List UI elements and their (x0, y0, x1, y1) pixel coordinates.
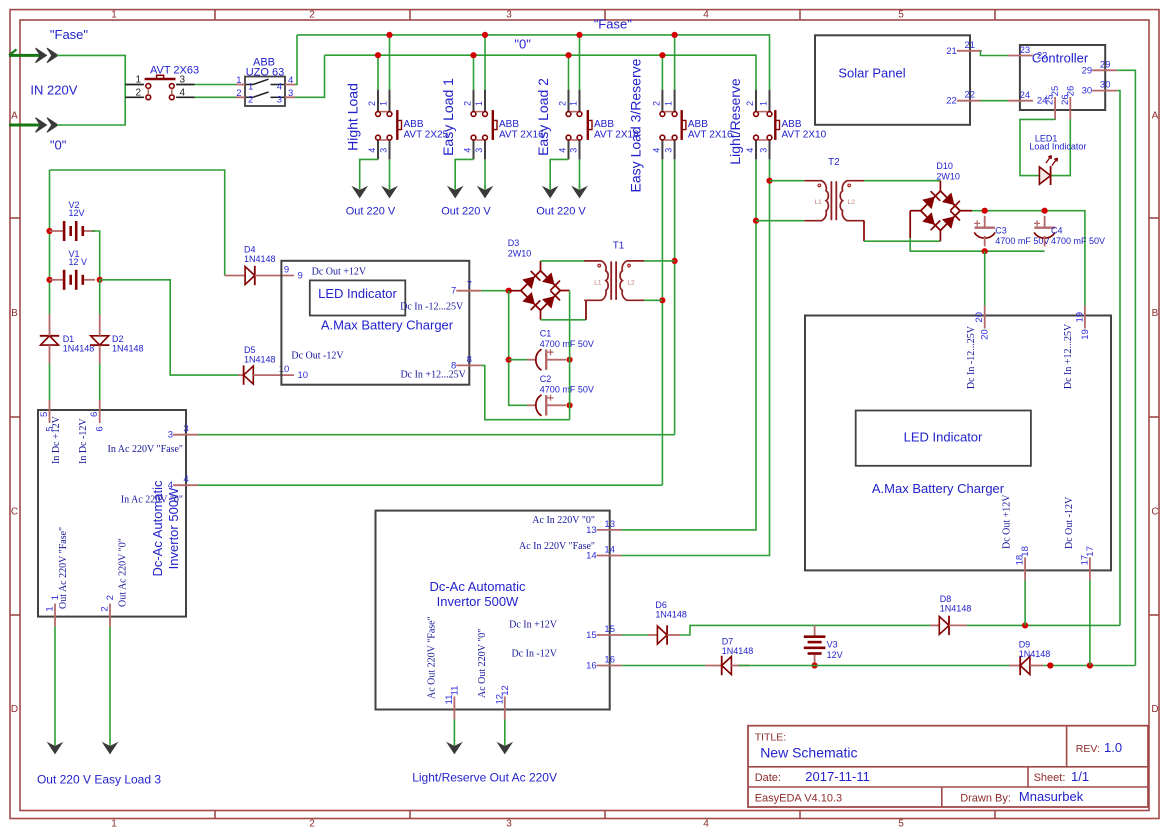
svg-text:4: 4 (463, 148, 473, 153)
svg-text:2: 2 (558, 101, 568, 106)
svg-text:4: 4 (168, 480, 173, 491)
node V1 right junction (97, 277, 103, 283)
svg-text:A: A (11, 111, 18, 122)
wire D2 leads (99, 314, 101, 363)
pin 29 (1082, 59, 1118, 76)
net port "0" input arrow (9, 118, 58, 133)
breaker CB4 contacts (660, 110, 686, 140)
wire controller pin26 to LED cathode (1051, 119, 1071, 175)
pin 16 (586, 655, 622, 672)
svg-text:ABB: ABB (782, 119, 802, 130)
svg-text:29: 29 (1100, 59, 1111, 70)
wire D6 to D8 rail (667, 625, 930, 635)
svg-text:ABB: ABB (594, 119, 614, 130)
wire charger1 pin7 to bridge D3 (481, 290, 508, 292)
inverter U2 name label (150, 480, 181, 577)
breaker CB5 pin numbers (745, 101, 769, 153)
RCD UZO pin stubs (236, 85, 295, 98)
wire solar pin22 to controller pin24 (980, 100, 1008, 102)
svg-text:1: 1 (45, 606, 56, 611)
svg-text:A.Max Battery Charger: A.Max Battery Charger (872, 481, 1005, 496)
svg-text:TITLE:: TITLE: (755, 731, 787, 743)
switch AVT 2X63 contacts (145, 75, 176, 100)
svg-text:C: C (1151, 507, 1158, 518)
svg-text:C2: C2 (540, 374, 552, 384)
svg-text:New Schematic: New Schematic (760, 745, 857, 761)
svg-text:T2: T2 (828, 157, 840, 168)
svg-text:4: 4 (288, 75, 293, 86)
pin 22 (946, 90, 982, 107)
svg-text:Ac In 220V "Fase": Ac In 220V "Fase" (519, 541, 595, 552)
svg-text:D10: D10 (936, 161, 953, 171)
node charger2 pin17 junction (1087, 662, 1093, 668)
svg-text:4700 mF 50V: 4700 mF 50V (540, 385, 594, 395)
node T1 secondary bottom junction (659, 297, 665, 303)
svg-text:Invertor 500W: Invertor 500W (437, 594, 519, 609)
svg-text:19: 19 (1080, 329, 1091, 340)
wire Fase bus (297, 35, 770, 91)
svg-text:C: C (11, 507, 18, 518)
node T1 secondary top junction (672, 258, 678, 264)
bridge rectifier D3 2W10 (508, 238, 560, 310)
wire inverter1 pin1 output (54, 627, 56, 741)
node bridge D3 input junction (506, 288, 512, 294)
svg-text:In Ac 220V "Fase": In Ac 220V "Fase" (108, 444, 183, 455)
breaker CB1 pin numbers (367, 101, 389, 153)
svg-text:ABB: ABB (404, 119, 424, 130)
breaker CB1 pin stubs (378, 90, 390, 159)
svg-text:IN 220V: IN 220V (30, 82, 77, 97)
wire breaker5 pin3 column to inverter2 pin14 (622, 159, 770, 555)
svg-text:16: 16 (586, 661, 597, 672)
svg-text:1.0: 1.0 (1104, 740, 1122, 755)
svg-text:1: 1 (111, 10, 117, 21)
node C1 right junction (567, 357, 573, 363)
pin 13 (586, 519, 622, 536)
svg-text:4700 mF 50V: 4700 mF 50V (1051, 236, 1105, 246)
svg-text:5: 5 (39, 412, 50, 417)
wire inverter1 pin3 to Fase column (198, 434, 675, 436)
pin 26 (1060, 86, 1077, 120)
breaker CB5 value label (782, 119, 827, 141)
svg-text:D9: D9 (1019, 639, 1031, 649)
wire breaker4 pin4 column to inverter1 pin4 (661, 159, 663, 485)
svg-text:12V: 12V (69, 208, 85, 218)
battery V1 12 V (49, 249, 95, 290)
svg-text:Dc Out +12V: Dc Out +12V (1002, 494, 1013, 549)
wire Fase bus to breaker 1 pin1 (389, 35, 391, 91)
solar panel box (815, 35, 970, 125)
svg-text:Dc In +12V: Dc In +12V (509, 620, 558, 631)
out arrow breaker 3 left (549, 185, 551, 190)
svg-text:2: 2 (236, 88, 241, 99)
svg-text:C3: C3 (995, 226, 1007, 236)
node V2 left junction (46, 228, 52, 234)
pin 10 numbers (279, 364, 308, 381)
svg-text:Easy Load 2: Easy Load 2 (535, 78, 551, 156)
wire inverter1 pin4 to 0 column (198, 484, 662, 486)
svg-text:Light/Reserve: Light/Reserve (727, 78, 743, 165)
diode D7 1N4148 (722, 637, 754, 676)
svg-text:9: 9 (298, 271, 303, 282)
out arrow breaker 2 left (454, 185, 456, 190)
wire C1 C2 left column (509, 291, 527, 406)
svg-text:D: D (1151, 704, 1158, 715)
svg-text:24: 24 (1020, 90, 1031, 101)
svg-text:6: 6 (89, 412, 100, 417)
svg-text:Dc In -12V: Dc In -12V (511, 648, 557, 659)
breaker CB4 pin stubs (662, 90, 674, 159)
svg-text:3: 3 (379, 148, 389, 153)
svg-text:3: 3 (180, 75, 186, 86)
battery charger U4 box (805, 316, 1111, 571)
svg-text:23: 23 (1037, 51, 1048, 62)
wire D8 to controller pin30 rail (949, 624, 1120, 626)
wire solar pin21 to controller pin23 (980, 51, 1008, 56)
svg-text:In Ac 220V "0": In Ac 220V "0" (121, 494, 183, 505)
svg-text:1N4148: 1N4148 (940, 604, 972, 614)
svg-text:D7: D7 (722, 637, 734, 647)
capacitor C1 4700 mF 50V (527, 329, 594, 371)
svg-text:L2: L2 (627, 279, 635, 286)
node C3 minus junction (982, 248, 988, 254)
svg-text:3: 3 (569, 148, 579, 153)
svg-text:Date:: Date: (755, 772, 781, 784)
pin 8 (451, 354, 481, 371)
wire controller pin25 to LED anode (1020, 119, 1055, 175)
svg-text:1/1: 1/1 (1071, 769, 1089, 784)
pin 9 numbers (284, 265, 303, 282)
wire D1 to inverter1 pin5 (49, 364, 51, 400)
svg-text:Out 220 V: Out 220 V (346, 206, 396, 218)
wire breaker4 pin3 column to inverter1 pin3 (674, 159, 676, 434)
pin 14 (586, 545, 622, 562)
svg-text:4700 mF 50V: 4700 mF 50V (540, 339, 594, 349)
svg-text:1N4148: 1N4148 (655, 610, 687, 620)
wire UZO pin4 to Fase bus (295, 35, 297, 85)
wire T2 primary bottom (756, 220, 804, 222)
svg-text:Solar Panel: Solar Panel (838, 66, 905, 81)
svg-text:ABB: ABB (499, 119, 519, 130)
pin 1 (45, 595, 62, 627)
svg-text:10: 10 (298, 370, 309, 381)
svg-text:Dc In +12...25V: Dc In +12...25V (400, 370, 466, 381)
svg-text:"0": "0" (50, 138, 67, 153)
node C1 left junction (506, 357, 512, 363)
svg-text:AVT 2X10: AVT 2X10 (782, 130, 827, 141)
svg-text:1: 1 (50, 595, 61, 600)
inverter U2 box (38, 410, 186, 617)
switch AVT 2X63 pins 1-4 (125, 75, 194, 99)
svg-text:4: 4 (558, 148, 568, 153)
svg-text:2: 2 (105, 595, 116, 600)
wire left battery column (49, 170, 51, 314)
svg-text:LED Indicator: LED Indicator (904, 430, 983, 445)
pin 15 (586, 624, 622, 641)
wire inverter2 pin15 to D6 (622, 634, 648, 636)
svg-text:D4: D4 (244, 245, 256, 255)
wire T2 secondary top to bridge D10 (864, 181, 940, 191)
svg-text:8: 8 (467, 354, 472, 365)
svg-text:Dc-Ac Automatic: Dc-Ac Automatic (429, 579, 526, 594)
svg-text:2W10: 2W10 (508, 249, 532, 259)
node C2 right junction (567, 402, 573, 408)
svg-text:5: 5 (898, 10, 904, 21)
svg-text:15: 15 (586, 630, 597, 641)
svg-text:2W10: 2W10 (936, 172, 960, 182)
out arrow breaker 3 right (579, 185, 581, 190)
svg-text:B: B (1152, 308, 1159, 319)
out arrow inverter1 pin2 (109, 740, 111, 746)
wire V2 right to V1 right (92, 231, 100, 280)
wire breaker 3 output left (550, 159, 568, 188)
svg-text:D5: D5 (244, 345, 256, 355)
node T2 primary bottom junction (753, 218, 759, 224)
pin 19 (1074, 306, 1091, 340)
svg-text:Dc Out -12V: Dc Out -12V (1064, 496, 1075, 549)
wire D7 to D9 rail (731, 665, 1009, 667)
svg-text:9: 9 (284, 265, 289, 276)
svg-text:4: 4 (703, 819, 709, 827)
diode D4 1N4148 (244, 245, 276, 286)
svg-text:"Fase": "Fase" (50, 27, 89, 42)
transformer T1 (584, 240, 644, 300)
wire breaker 1 output right (389, 159, 391, 188)
svg-text:A: A (1152, 111, 1159, 122)
svg-text:D2: D2 (112, 334, 124, 344)
wire breaker 3 output right (579, 159, 581, 188)
svg-text:In Dc -12V: In Dc -12V (78, 418, 89, 464)
diode D9 1N4148 (1019, 639, 1051, 675)
svg-text:A.Max Battery Charger: A.Max Battery Charger (321, 317, 454, 332)
wire 0 bus to breaker 3 pin2 (568, 55, 570, 90)
svg-text:4: 4 (183, 474, 188, 485)
pin 11 (444, 686, 461, 720)
wire Fase bus to breaker 2 pin1 (484, 35, 486, 91)
wire bridge D3 bottom to T1 primary (541, 300, 587, 320)
svg-text:V3: V3 (827, 639, 838, 649)
svg-text:REV:: REV: (1076, 743, 1100, 755)
wire T1 secondary top to Fase column (644, 260, 675, 262)
wire charger2 pin17 down (1089, 580, 1091, 665)
node D9 cathode junction (1047, 662, 1053, 668)
out arrow breaker 1 left (359, 185, 361, 190)
charger U1 pin names (291, 266, 466, 380)
wire controller pin30 right (1117, 91, 1120, 626)
svg-text:Out 220 V: Out 220 V (536, 206, 586, 218)
svg-text:8: 8 (451, 360, 456, 371)
svg-text:5: 5 (45, 426, 56, 431)
wire bridge D3 output column (560, 291, 569, 420)
svg-text:3: 3 (474, 148, 484, 153)
out arrow inverter1 pin1 (54, 740, 56, 746)
pin 6 (89, 400, 106, 432)
inverter U2 pin names (51, 415, 183, 609)
svg-text:19: 19 (1074, 312, 1085, 323)
breaker CB2 value label (499, 119, 544, 141)
wire bridge D3 top to T1 primary (541, 261, 587, 271)
wire C2 right to column (558, 404, 567, 406)
breaker CB5 contacts (754, 110, 780, 140)
svg-text:D: D (11, 704, 18, 715)
diode D6 1N4148 (655, 600, 687, 645)
pin 17 (1079, 546, 1096, 580)
svg-text:Easy Load 1: Easy Load 1 (440, 78, 456, 156)
capacitor C2 4700 mF 50V (527, 374, 594, 416)
svg-text:3: 3 (168, 430, 173, 441)
capacitor C4 4700 mF 50V (1034, 216, 1105, 247)
wire breaker5 pin4 column to inverter2 pin13 (622, 159, 757, 530)
wire switch pin3 to UZO pin1 (195, 85, 237, 98)
wire D5 to pin10 (253, 374, 294, 376)
wire 0 bus to breaker 4 pin2 (661, 55, 663, 90)
wire charger2 pin18 down (1024, 580, 1026, 625)
svg-text:"0": "0" (514, 36, 531, 51)
wire breaker 2 output right (484, 159, 486, 188)
svg-text:L1: L1 (815, 199, 823, 206)
node C4 plus junction (1042, 208, 1048, 214)
wire D4 cathode to pin9 (255, 275, 294, 277)
svg-text:C1: C1 (540, 329, 552, 339)
title block texts (755, 731, 1122, 804)
pin 24 (1008, 90, 1048, 107)
svg-text:1N4148: 1N4148 (112, 344, 144, 354)
svg-text:3: 3 (506, 10, 512, 21)
inverter U3 box (376, 511, 610, 710)
battery V2 12V (49, 200, 95, 241)
svg-text:22: 22 (965, 90, 976, 101)
wire inverter2 pin12 output (504, 720, 506, 742)
wire inverter2 pin11 output (453, 720, 455, 742)
svg-text:3: 3 (664, 148, 674, 153)
svg-text:2: 2 (651, 101, 661, 106)
svg-text:7: 7 (451, 286, 456, 297)
breaker CB3 pin stubs (569, 90, 580, 159)
svg-text:10: 10 (279, 364, 290, 375)
svg-text:Light/Reserve Out Ac 220V: Light/Reserve Out Ac 220V (412, 770, 557, 784)
svg-text:4: 4 (745, 148, 755, 153)
wire charger1 pin8 loop (481, 365, 569, 419)
breaker CB3 pin numbers (558, 101, 579, 153)
wire 0 bus (325, 55, 757, 90)
svg-text:14: 14 (604, 545, 615, 556)
svg-text:21: 21 (946, 46, 957, 57)
transformer T2 (804, 157, 864, 221)
battery V3 12V (804, 625, 843, 665)
svg-text:Dc Out -12V: Dc Out -12V (291, 350, 344, 361)
svg-text:29: 29 (1082, 65, 1093, 76)
breaker CB2 contacts (471, 110, 497, 140)
out arrow breaker 2 right (484, 185, 486, 190)
svg-text:Hight Load: Hight Load (345, 83, 361, 151)
svg-text:Dc In +12...25V: Dc In +12...25V (1063, 323, 1074, 389)
svg-text:4: 4 (651, 148, 661, 153)
svg-text:1: 1 (664, 101, 674, 106)
svg-text:L2: L2 (848, 199, 856, 206)
wire C1 left (509, 359, 527, 361)
wire inverter1 pin2 output (109, 627, 111, 741)
node V1 left junction (46, 277, 52, 283)
wire V1 right to D5 (100, 280, 238, 375)
svg-text:1N4148: 1N4148 (244, 254, 276, 264)
svg-text:1: 1 (135, 75, 141, 86)
svg-text:T1: T1 (613, 240, 625, 251)
svg-text:26: 26 (1065, 86, 1076, 97)
svg-text:2: 2 (248, 94, 253, 105)
svg-text:D1: D1 (63, 334, 75, 344)
svg-text:Ac Out 220V "0": Ac Out 220V "0" (477, 629, 488, 698)
svg-text:11: 11 (449, 686, 460, 696)
inverter U3 pin names (427, 515, 596, 699)
svg-text:3: 3 (183, 424, 188, 435)
pin 20 (974, 306, 991, 340)
capacitor C3 4700 mF 50V (974, 216, 1049, 247)
node T2 primary top junction (766, 178, 772, 184)
wire inverter2 pin16 to D7 (622, 665, 705, 667)
svg-text:12V: 12V (827, 650, 843, 660)
svg-text:12: 12 (500, 685, 511, 696)
RCD ABB UZO 63 box (245, 77, 285, 107)
svg-text:13: 13 (586, 525, 597, 536)
svg-text:18: 18 (1020, 546, 1031, 557)
svg-text:2: 2 (745, 101, 755, 106)
junction dots Fase bus (386, 32, 677, 38)
node C3 plus junction (982, 208, 988, 214)
wire 0 bus to breaker 2 pin2 (473, 55, 475, 90)
pin 4 (168, 474, 198, 491)
svg-text:3: 3 (288, 88, 293, 99)
svg-text:Ac Out 220V "Fase": Ac Out 220V "Fase" (427, 616, 438, 699)
pin 30 (1082, 80, 1118, 97)
pin 7 (451, 280, 481, 297)
svg-text:LED Indicator: LED Indicator (318, 286, 397, 301)
svg-text:12 V: 12 V (69, 257, 88, 267)
pin 5 (39, 400, 56, 432)
controller box (1020, 45, 1105, 110)
svg-text:4: 4 (367, 148, 377, 153)
svg-text:6: 6 (95, 426, 106, 431)
svg-text:L1: L1 (594, 279, 602, 286)
svg-text:In Dc +12V: In Dc +12V (51, 415, 62, 464)
svg-text:20: 20 (974, 312, 985, 323)
svg-text:Sheet:: Sheet: (1034, 772, 1066, 784)
svg-text:4: 4 (277, 82, 282, 93)
wire T2 primary top (770, 180, 805, 182)
svg-text:1: 1 (111, 819, 117, 827)
wire Fase bus to breaker 3 pin1 (579, 35, 581, 91)
pin 2 (100, 595, 117, 627)
svg-text:30: 30 (1082, 86, 1093, 97)
pin 21 (946, 40, 982, 57)
svg-text:D6: D6 (655, 600, 667, 610)
breaker CB3 value label (594, 119, 639, 141)
svg-text:21: 21 (965, 40, 976, 51)
svg-text:3: 3 (277, 94, 282, 105)
svg-text:Out 220 V Easy Load 3: Out 220 V Easy Load 3 (37, 773, 161, 787)
pin 25 (1045, 86, 1062, 120)
svg-text:1N4148: 1N4148 (722, 646, 754, 656)
bridge rectifier D10 2W10 (921, 161, 960, 230)
wire Fase bus to breaker 4 pin1 (674, 35, 676, 91)
diode D8 1N4148 (939, 594, 971, 635)
svg-text:2: 2 (135, 87, 141, 98)
svg-text:13: 13 (604, 519, 615, 530)
svg-text:Out 220 V: Out 220 V (441, 206, 491, 218)
svg-text:4: 4 (703, 10, 709, 21)
svg-text:16: 16 (604, 655, 615, 666)
wire breaker 2 output left (455, 159, 473, 188)
wire D2 column (99, 280, 101, 315)
